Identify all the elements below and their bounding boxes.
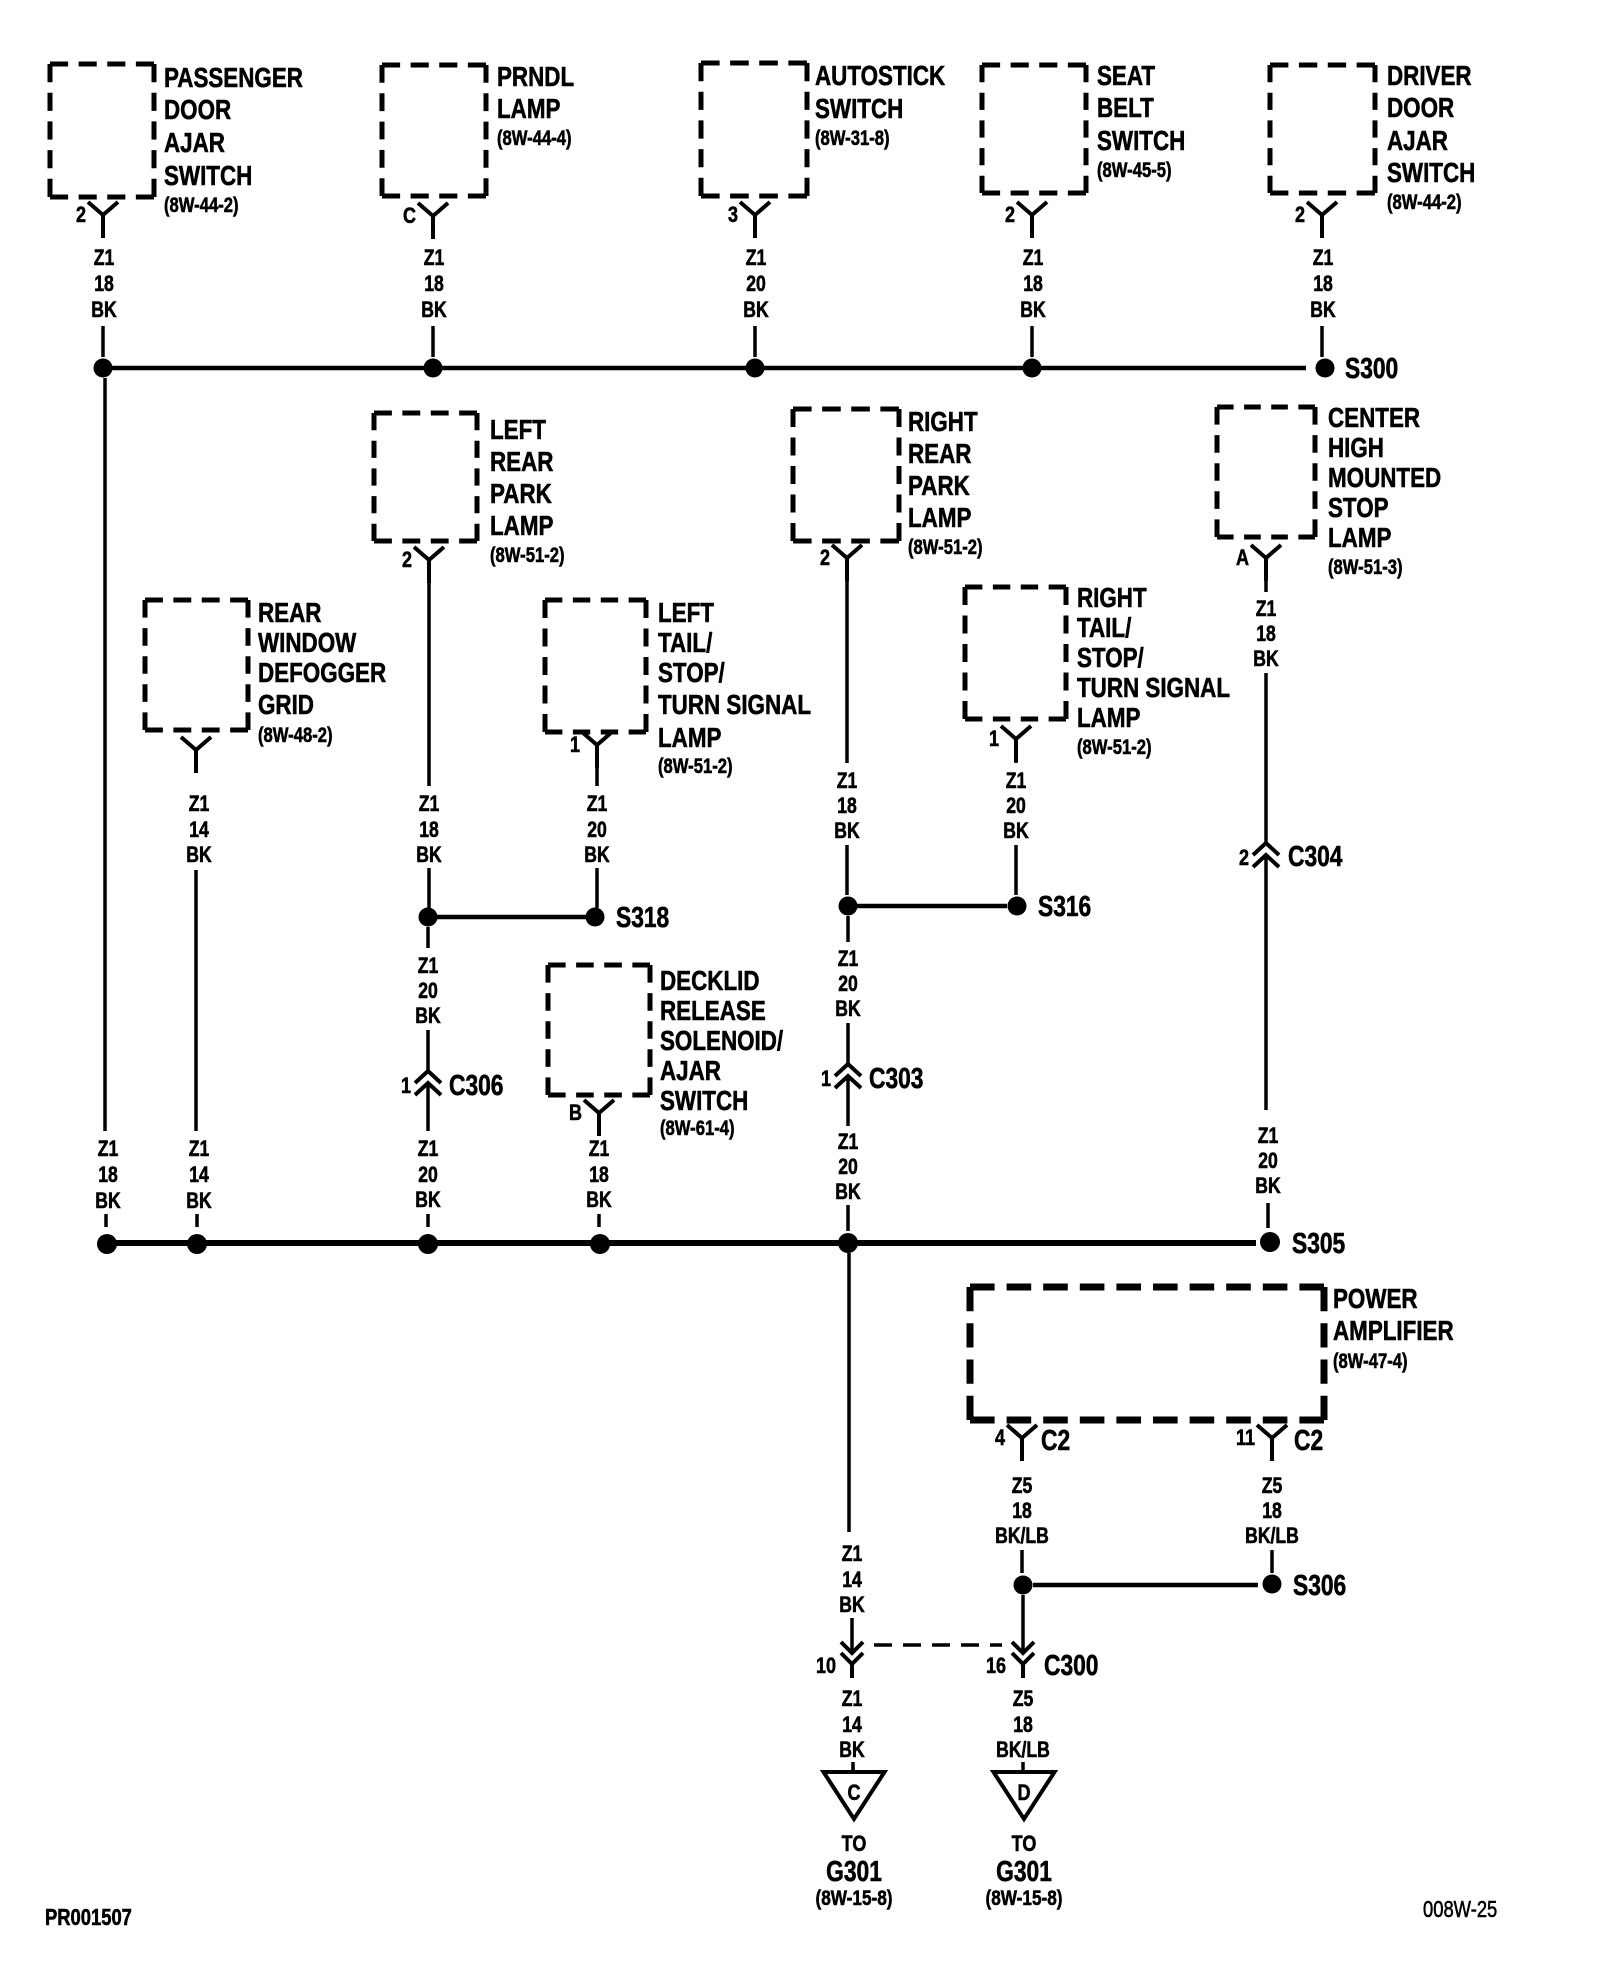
svg-text:(8W-15-8): (8W-15-8) xyxy=(985,1886,1062,1910)
svg-text:BK: BK xyxy=(416,843,442,867)
svg-text:G301: G301 xyxy=(996,1857,1052,1888)
svg-text:LAMP: LAMP xyxy=(490,511,554,542)
svg-text:(8W-51-3): (8W-51-3) xyxy=(1328,555,1403,578)
svg-text:C: C xyxy=(848,1781,861,1805)
wire label Z1 18 BK (passenger column lower) xyxy=(95,1137,121,1213)
svg-text:LAMP: LAMP xyxy=(497,94,561,125)
svg-text:BK: BK xyxy=(1003,819,1029,843)
wire: left C2 down to S306 xyxy=(1020,1550,1024,1573)
svg-text:1: 1 xyxy=(821,1067,831,1091)
wire label Z1 18 BK (right park wire) xyxy=(834,769,860,843)
wire label Z1 20 BK (chmsl column lower) xyxy=(1255,1124,1281,1198)
wire: passenger column stub at S305 xyxy=(104,1214,108,1227)
svg-text:C2: C2 xyxy=(1294,1426,1323,1457)
svg-text:Z1: Z1 xyxy=(842,1542,863,1566)
svg-text:18: 18 xyxy=(1012,1499,1032,1523)
wire label Z5 18 BK/LB (left C2 wire) xyxy=(995,1474,1049,1548)
splice junction on S300 at prndl lamp xyxy=(424,359,443,378)
svg-text:RIGHT: RIGHT xyxy=(1077,583,1147,614)
pin B of decklid release solenoid/ajar switch xyxy=(569,1100,614,1136)
svg-text:AJAR: AJAR xyxy=(660,1056,721,1087)
svg-text:D: D xyxy=(1018,1781,1031,1805)
svg-text:(8W-45-5): (8W-45-5) xyxy=(1097,158,1172,181)
svg-text:BELT: BELT xyxy=(1097,93,1154,124)
svg-text:DECKLID: DECKLID xyxy=(660,966,760,997)
wire: C306 column stub at S305 xyxy=(426,1214,430,1227)
pin C of prndl lamp xyxy=(403,203,448,239)
pin 3 of autostick switch xyxy=(728,202,770,238)
wire: S305 down to C300 pin 10 xyxy=(847,1253,851,1532)
svg-text:S305: S305 xyxy=(1292,1229,1345,1260)
splice junction on S305 at defogger column xyxy=(187,1234,207,1254)
svg-text:LAMP: LAMP xyxy=(1328,523,1392,554)
svg-text:Z1: Z1 xyxy=(419,792,440,816)
svg-text:BK: BK xyxy=(186,843,212,867)
svg-text:LAMP: LAMP xyxy=(1077,703,1141,734)
svg-text:REAR: REAR xyxy=(490,447,553,478)
splice junction on S300 at seat belt xyxy=(1023,359,1042,378)
wire: right rear park lamp down xyxy=(845,558,849,763)
wire: S316 down to C303 xyxy=(846,916,850,942)
svg-text:LAMP: LAMP xyxy=(658,723,722,754)
svg-text:BK: BK xyxy=(1253,647,1279,671)
connector C306 xyxy=(401,1071,503,1102)
svg-text:14: 14 xyxy=(189,818,209,842)
connector C300 pin 10 xyxy=(816,1642,863,1679)
svg-text:(8W-51-2): (8W-51-2) xyxy=(658,754,733,777)
splice junction S318 left xyxy=(419,908,438,927)
svg-text:Z1: Z1 xyxy=(837,769,858,793)
wire label Z1 14 BK (defogger wire upper) xyxy=(186,792,212,867)
wire: passenger door column S300 to S305 xyxy=(103,378,107,1131)
svg-text:2: 2 xyxy=(76,203,86,227)
svg-text:SWITCH: SWITCH xyxy=(1097,126,1185,157)
svg-text:18: 18 xyxy=(1313,272,1333,296)
pin 2 of seat belt switch xyxy=(1005,202,1047,238)
svg-text:18: 18 xyxy=(1262,1499,1282,1523)
svg-text:1: 1 xyxy=(401,1074,411,1098)
svg-text:(8W-44-2): (8W-44-2) xyxy=(1387,190,1462,213)
component: rear window defogger grid (dashed box) xyxy=(145,598,386,747)
splice junction on S300 at autostick xyxy=(746,359,765,378)
svg-text:RIGHT: RIGHT xyxy=(908,407,978,438)
svg-text:20: 20 xyxy=(838,972,858,996)
svg-text:PR001507: PR001507 xyxy=(45,1905,132,1930)
wire: autostick to S300 xyxy=(753,326,757,357)
svg-text:Z1: Z1 xyxy=(418,954,439,978)
svg-text:Z1: Z1 xyxy=(1258,1124,1279,1148)
svg-text:Z1: Z1 xyxy=(587,792,608,816)
svg-text:TAIL/: TAIL/ xyxy=(1077,613,1131,644)
svg-text:14: 14 xyxy=(842,1568,862,1592)
svg-text:Z1: Z1 xyxy=(589,1137,610,1161)
svg-text:Z1: Z1 xyxy=(94,246,115,270)
splice S306 xyxy=(1263,1571,1347,1602)
wire: left park to S318 xyxy=(427,868,431,908)
svg-text:BK: BK xyxy=(1020,298,1046,322)
svg-text:Z1: Z1 xyxy=(842,1687,863,1711)
svg-text:BK: BK xyxy=(91,298,117,322)
pin 2 of driver door ajar switch xyxy=(1295,202,1337,238)
svg-text:Z1: Z1 xyxy=(746,246,767,270)
svg-text:18: 18 xyxy=(98,1163,118,1187)
svg-text:18: 18 xyxy=(1023,272,1043,296)
pin A of center high mounted stop lamp xyxy=(1236,545,1281,581)
component: left tail/stop/turn signal lamp (dashed box) xyxy=(545,598,811,778)
svg-text:2: 2 xyxy=(402,548,412,572)
svg-text:BK: BK xyxy=(839,1593,865,1617)
svg-text:Z1: Z1 xyxy=(424,246,445,270)
component: driver door ajar switch (dashed box) xyxy=(1270,61,1475,214)
svg-text:STOP/: STOP/ xyxy=(658,658,725,689)
wire label Z1 20 BK (left tail wire) xyxy=(584,792,610,867)
wire label Z5 18 BK/LB (below C300 pin 16) xyxy=(996,1687,1050,1762)
wire: defogger grid down to S305 xyxy=(194,870,198,1131)
wire label Z1 14 BK (defogger wire lower) xyxy=(186,1137,212,1213)
svg-text:GRID: GRID xyxy=(258,690,314,721)
svg-text:CENTER: CENTER xyxy=(1328,403,1420,434)
connector C303 xyxy=(821,1064,923,1095)
svg-text:20: 20 xyxy=(746,272,766,296)
svg-text:BK: BK xyxy=(835,1180,861,1204)
ground reference text TO G301 (right) xyxy=(985,1832,1062,1910)
component: seat belt switch (dashed box) xyxy=(982,61,1185,193)
pin 1 of right tail/stop/turn signal lamp xyxy=(989,726,1031,762)
svg-text:3: 3 xyxy=(728,203,738,227)
svg-text:BK: BK xyxy=(835,997,861,1021)
svg-text:008W-25: 008W-25 xyxy=(1423,1897,1497,1922)
svg-text:20: 20 xyxy=(418,1163,438,1187)
svg-text:S306: S306 xyxy=(1293,1571,1346,1602)
svg-text:BK: BK xyxy=(839,1738,865,1762)
svg-text:Z1: Z1 xyxy=(189,792,210,816)
svg-text:(8W-47-4): (8W-47-4) xyxy=(1333,1349,1408,1372)
svg-text:C300: C300 xyxy=(1044,1651,1098,1682)
svg-text:C306: C306 xyxy=(449,1071,503,1102)
pin 2 of right rear park lamp xyxy=(820,545,862,581)
wire: S316 bus xyxy=(857,904,1007,909)
svg-text:BK: BK xyxy=(421,298,447,322)
wire label Z1 14 BK (below C300 pin 10) xyxy=(839,1687,865,1762)
svg-text:PARK: PARK xyxy=(490,479,552,510)
splice S300 xyxy=(1316,354,1399,385)
svg-text:C303: C303 xyxy=(869,1064,923,1095)
svg-text:20: 20 xyxy=(587,818,607,842)
splice S316 xyxy=(1008,892,1092,923)
svg-text:AMPLIFIER: AMPLIFIER xyxy=(1333,1316,1454,1347)
splice junction on S305 at C303 column xyxy=(838,1233,858,1253)
splice junction on S305 at C306 column xyxy=(418,1234,438,1254)
svg-text:(8W-51-2): (8W-51-2) xyxy=(490,543,565,566)
svg-text:SEAT: SEAT xyxy=(1097,61,1156,92)
wire: stub into ground symbol C xyxy=(851,1762,855,1772)
svg-text:(8W-48-2): (8W-48-2) xyxy=(258,723,333,746)
wire: left tail to S318 xyxy=(595,868,599,908)
component: left rear park lamp (dashed box) xyxy=(374,413,565,567)
svg-text:DEFOGGER: DEFOGGER xyxy=(258,658,386,689)
svg-text:2: 2 xyxy=(820,546,830,570)
connector C300 pin 16 xyxy=(986,1642,1098,1682)
svg-text:20: 20 xyxy=(418,979,438,1003)
wire: chmsl column stub at S305 xyxy=(1266,1203,1270,1228)
wire label Z1 20 BK (autostick wire) xyxy=(743,246,769,322)
wire: seat belt to S300 xyxy=(1030,326,1034,357)
pin 4 of power amplifier connector C2 xyxy=(995,1425,1070,1461)
svg-text:STOP/: STOP/ xyxy=(1077,643,1144,674)
svg-text:PRNDL: PRNDL xyxy=(497,62,574,93)
component: power amplifier (dashed box) xyxy=(970,1284,1454,1420)
component: autostick switch (dashed box) xyxy=(701,61,946,196)
svg-text:POWER: POWER xyxy=(1333,1284,1418,1315)
wire label Z1 20 BK (below C306) xyxy=(415,1137,441,1212)
svg-text:AUTOSTICK: AUTOSTICK xyxy=(815,61,946,92)
wire label Z1 14 BK (above C300 pin 10) xyxy=(839,1542,865,1617)
svg-text:BK/LB: BK/LB xyxy=(995,1524,1049,1548)
off-page connector D (to ground G301) xyxy=(994,1772,1055,1819)
svg-text:18: 18 xyxy=(589,1163,609,1187)
component: center high mounted stop lamp (dashed box) xyxy=(1217,403,1441,579)
wire label Z1 20 BK (above C306) xyxy=(415,954,441,1028)
svg-text:SWITCH: SWITCH xyxy=(164,161,252,192)
svg-text:MOUNTED: MOUNTED xyxy=(1328,463,1441,494)
svg-text:10: 10 xyxy=(816,1654,836,1678)
svg-text:C2: C2 xyxy=(1041,1426,1070,1457)
svg-text:20: 20 xyxy=(1006,794,1026,818)
ground reference text TO G301 (left) xyxy=(815,1832,892,1910)
svg-text:PASSENGER: PASSENGER xyxy=(164,63,303,94)
svg-text:BK/LB: BK/LB xyxy=(996,1738,1050,1762)
svg-text:TAIL/: TAIL/ xyxy=(658,628,712,659)
svg-text:DOOR: DOOR xyxy=(1387,93,1454,124)
svg-text:LEFT: LEFT xyxy=(658,598,714,629)
off-page connector C (to ground G301) xyxy=(824,1772,885,1819)
svg-text:4: 4 xyxy=(995,1426,1006,1450)
svg-text:BK: BK xyxy=(584,843,610,867)
splice junction on S305 at decklid column xyxy=(590,1234,610,1254)
svg-text:STOP: STOP xyxy=(1328,493,1389,524)
wire: S318 down to C306 xyxy=(426,927,430,948)
splice junction S306 left xyxy=(1014,1576,1033,1595)
svg-text:1: 1 xyxy=(570,733,580,757)
wire: right tail lamp down xyxy=(1014,739,1018,763)
svg-text:2: 2 xyxy=(1239,846,1249,870)
component: prndl lamp (dashed box) xyxy=(382,62,574,196)
svg-text:Z5: Z5 xyxy=(1013,1687,1034,1711)
wire: defogger stub at S305 xyxy=(195,1214,199,1227)
svg-text:(8W-44-2): (8W-44-2) xyxy=(164,193,239,216)
svg-text:A: A xyxy=(1236,546,1249,570)
wire: into C300 pin 10 xyxy=(850,1618,854,1652)
wire: out of C306 xyxy=(426,1084,430,1131)
footer text PR001507 xyxy=(45,1905,132,1930)
svg-text:BK: BK xyxy=(834,819,860,843)
svg-text:Z1: Z1 xyxy=(838,947,859,971)
pin of rear window defogger grid xyxy=(181,737,211,773)
component: right tail/stop/turn signal lamp (dashed box) xyxy=(965,583,1230,759)
svg-text:BK: BK xyxy=(1310,298,1336,322)
component: passenger door ajar switch (dashed box) xyxy=(50,63,303,217)
svg-text:BK: BK xyxy=(1255,1174,1281,1198)
wire label Z5 18 BK/LB (right C2 wire) xyxy=(1245,1474,1299,1548)
svg-text:TO: TO xyxy=(842,1832,867,1856)
wire: driver door to S300 xyxy=(1320,326,1324,357)
svg-text:BK: BK xyxy=(95,1189,121,1213)
wire label Z1 18 BK (left park wire) xyxy=(416,792,442,867)
pin 2 of passenger door ajar switch xyxy=(76,202,118,238)
wire: into C306 xyxy=(426,1030,430,1071)
wire: chmsl to C304 xyxy=(1264,673,1268,843)
wire: prndl lamp to S300 xyxy=(431,326,435,357)
svg-text:16: 16 xyxy=(986,1654,1006,1678)
svg-text:Z1: Z1 xyxy=(418,1137,439,1161)
svg-text:G301: G301 xyxy=(826,1857,882,1888)
wire: S305 bus xyxy=(107,1240,1256,1246)
svg-text:AJAR: AJAR xyxy=(1387,126,1448,157)
svg-text:BK: BK xyxy=(415,1188,441,1212)
svg-text:BK/LB: BK/LB xyxy=(1245,1524,1299,1548)
svg-text:Z1: Z1 xyxy=(1023,246,1044,270)
svg-text:Z1: Z1 xyxy=(189,1137,210,1161)
svg-text:20: 20 xyxy=(1258,1149,1278,1173)
wire: into C303 xyxy=(846,1023,850,1064)
svg-text:Z1: Z1 xyxy=(98,1137,119,1161)
wire label Z1 20 BK (above C303) xyxy=(835,947,861,1021)
wire: left tail lamp down xyxy=(595,745,599,786)
svg-text:BK: BK xyxy=(415,1004,441,1028)
component: decklid release solenoid/ajar switch (dashed box) xyxy=(548,965,783,1140)
svg-text:11: 11 xyxy=(1236,1426,1255,1450)
svg-text:BK: BK xyxy=(743,298,769,322)
svg-text:BK: BK xyxy=(586,1188,612,1212)
svg-text:S318: S318 xyxy=(616,903,669,934)
svg-text:C: C xyxy=(403,204,416,228)
wire label Z1 18 BK (chmsl wire) xyxy=(1253,597,1279,671)
svg-text:Z1: Z1 xyxy=(1256,597,1277,621)
footer text 008W-25 xyxy=(1423,1897,1497,1922)
svg-text:C304: C304 xyxy=(1288,842,1343,873)
svg-text:(8W-61-4): (8W-61-4) xyxy=(660,1116,735,1139)
svg-text:RELEASE: RELEASE xyxy=(660,996,766,1027)
svg-text:(8W-15-8): (8W-15-8) xyxy=(815,1886,892,1910)
wire label Z1 20 BK (right tail wire) xyxy=(1003,769,1029,843)
wire label Z1 18 BK (seat belt wire) xyxy=(1020,246,1046,322)
svg-text:WINDOW: WINDOW xyxy=(258,628,356,659)
svg-text:TURN SIGNAL: TURN SIGNAL xyxy=(1077,673,1230,704)
svg-text:TO: TO xyxy=(1012,1832,1037,1856)
svg-text:14: 14 xyxy=(842,1713,862,1737)
wire: out of C304 down to S305 xyxy=(1264,856,1268,1110)
component: right rear park lamp (dashed box) xyxy=(793,407,983,559)
svg-text:20: 20 xyxy=(838,1155,858,1179)
wire: C300 dashed link xyxy=(874,1643,1002,1647)
svg-text:Z1: Z1 xyxy=(1313,246,1334,270)
svg-text:18: 18 xyxy=(1013,1713,1033,1737)
svg-text:B: B xyxy=(569,1101,582,1125)
splice junction on S305 at passenger column xyxy=(97,1234,117,1254)
svg-text:18: 18 xyxy=(1256,622,1276,646)
wire: stub into ground symbol D xyxy=(1021,1762,1025,1772)
splice S318 xyxy=(586,903,670,934)
svg-text:18: 18 xyxy=(94,272,114,296)
pin 11 of power amplifier connector C2 xyxy=(1236,1425,1323,1461)
pin 1 of left tail/stop/turn signal lamp xyxy=(570,732,612,768)
svg-text:BK: BK xyxy=(186,1189,212,1213)
wire label Z1 20 BK (below C303) xyxy=(835,1130,861,1204)
svg-text:REAR: REAR xyxy=(258,598,321,629)
wire: chmsl down xyxy=(1264,558,1268,592)
svg-text:DOOR: DOOR xyxy=(164,95,231,126)
svg-text:(8W-31-8): (8W-31-8) xyxy=(815,126,890,149)
wire label Z1 18 BK (decklid wire) xyxy=(586,1137,612,1212)
svg-text:18: 18 xyxy=(837,794,857,818)
svg-text:PARK: PARK xyxy=(908,471,970,502)
splice junction S316 left xyxy=(839,897,858,916)
svg-text:SOLENOID/: SOLENOID/ xyxy=(660,1026,783,1057)
svg-text:18: 18 xyxy=(424,272,444,296)
svg-text:(8W-51-2): (8W-51-2) xyxy=(908,535,983,558)
svg-text:DRIVER: DRIVER xyxy=(1387,61,1472,92)
svg-text:S300: S300 xyxy=(1345,354,1398,385)
svg-text:LEFT: LEFT xyxy=(490,415,546,446)
svg-text:TURN SIGNAL: TURN SIGNAL xyxy=(658,690,811,721)
svg-text:18: 18 xyxy=(419,818,439,842)
wire: passenger door to S300 xyxy=(101,326,105,357)
wire label Z1 18 BK (passenger door wire) xyxy=(91,246,117,322)
wire label Z1 18 BK (driver door wire) xyxy=(1310,246,1336,322)
wire label Z1 18 BK (prndl lamp wire) xyxy=(421,246,447,322)
svg-text:Z1: Z1 xyxy=(838,1130,859,1154)
svg-text:S316: S316 xyxy=(1038,892,1091,923)
wire: right C2 down to S306 xyxy=(1270,1550,1274,1573)
splice junction on S300 at passenger door xyxy=(94,359,113,378)
wire: S318 bus xyxy=(437,915,586,920)
wire: right park to S316 xyxy=(845,845,849,895)
splice S305 xyxy=(1260,1229,1345,1260)
svg-text:(8W-51-2): (8W-51-2) xyxy=(1077,735,1152,758)
svg-text:14: 14 xyxy=(189,1163,209,1187)
connector C304 xyxy=(1239,842,1343,873)
svg-text:2: 2 xyxy=(1295,203,1305,227)
pin 2 of left rear park lamp xyxy=(402,547,444,583)
svg-text:HIGH: HIGH xyxy=(1328,433,1384,464)
wire: S306 bus xyxy=(1033,1583,1258,1588)
wire: S306 down to C300 pin 16 xyxy=(1021,1595,1025,1652)
svg-text:Z1: Z1 xyxy=(1006,769,1027,793)
svg-text:SWITCH: SWITCH xyxy=(1387,158,1475,189)
svg-text:(8W-44-4): (8W-44-4) xyxy=(497,126,572,149)
wire: C303 column to S305 xyxy=(846,1205,850,1231)
svg-text:SWITCH: SWITCH xyxy=(815,94,903,125)
wire: right tail to S316 xyxy=(1014,845,1018,895)
svg-text:1: 1 xyxy=(989,727,999,751)
svg-text:AJAR: AJAR xyxy=(164,128,225,159)
wire: decklid stub at S305 xyxy=(597,1214,601,1227)
wire: out of C303 xyxy=(846,1077,850,1126)
svg-text:SWITCH: SWITCH xyxy=(660,1086,748,1117)
svg-text:Z5: Z5 xyxy=(1012,1474,1033,1498)
svg-text:2: 2 xyxy=(1005,203,1015,227)
wire: S300 bus xyxy=(103,366,1306,371)
svg-text:Z5: Z5 xyxy=(1262,1474,1283,1498)
wire: left rear park lamp down xyxy=(427,558,431,786)
svg-text:LAMP: LAMP xyxy=(908,503,972,534)
svg-text:REAR: REAR xyxy=(908,439,971,470)
